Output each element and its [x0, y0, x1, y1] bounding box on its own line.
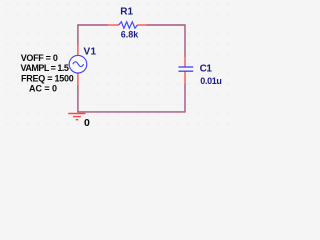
source V1 circle: [69, 55, 87, 73]
wire bottom: V1 bottom to ground corner to C1 bottom: [78, 84, 185, 112]
source V1 bottom pin: [77, 73, 79, 86]
grid background: [0, 0, 238, 132]
wire top-left: V1 top to R1 left pin: [78, 25, 108, 45]
ground bar 3: [76, 119, 79, 121]
resistor R1 left pin: [108, 24, 119, 26]
source V1 top pin: [77, 45, 79, 55]
capacitor C1 top pin: [184, 57, 186, 67]
capacitor C1 top plate: [179, 66, 194, 68]
svg-text:6.8k: 6.8k: [121, 29, 140, 39]
svg-text:0.01u: 0.01u: [200, 76, 221, 86]
svg-text:R1: R1: [120, 7, 133, 18]
source V1 sine wave: [73, 62, 84, 67]
svg-text:AC = 0: AC = 0: [29, 84, 57, 94]
svg-text:0: 0: [84, 117, 90, 129]
ground bar 2: [73, 116, 81, 118]
resistor R1 right pin: [137, 24, 146, 26]
svg-text:FREQ = 1500: FREQ = 1500: [21, 74, 74, 84]
ground bar 1: [68, 113, 85, 115]
svg-text:VAMPL = 1.5: VAMPL = 1.5: [21, 63, 69, 73]
capacitor C1 bottom plate: [179, 70, 194, 72]
resistor R1 body: [119, 22, 138, 28]
capacitor C1 bottom pin: [184, 72, 186, 85]
svg-text:VOFF = 0: VOFF = 0: [21, 53, 58, 63]
svg-text:C1: C1: [200, 64, 213, 75]
wire top-right: R1 right pin to C1 top: [146, 25, 185, 57]
svg-text:V1: V1: [84, 46, 97, 57]
